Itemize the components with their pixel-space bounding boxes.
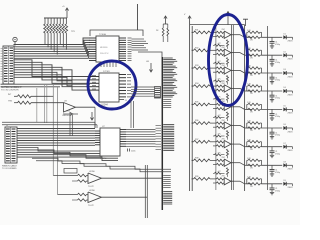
- svg-text:R39: R39: [195, 176, 198, 178]
- svg-text:D9: D9: [284, 180, 286, 182]
- resistor R35 row 5: [192, 102, 217, 106]
- capacitor C28 row 8: [270, 165, 280, 174]
- op-amp U6: [78, 190, 148, 207]
- svg-text:D5: D5: [284, 106, 286, 108]
- ground row 3: [270, 82, 274, 84]
- bus D wires: [17, 129, 95, 146]
- U4 right pins: [119, 75, 131, 103]
- resistor R39 row 9: [192, 176, 217, 180]
- svg-text:D8: D8: [284, 162, 286, 164]
- diode D8 row 8: [283, 162, 293, 171]
- power arrow right-section: [184, 14, 191, 21]
- svg-text:R32: R32: [195, 47, 198, 49]
- rail junction: [267, 26, 269, 190]
- resistors R5 R6 pullup: [156, 16, 169, 42]
- resistors input row 1: [213, 31, 224, 37]
- wires long pair: [2, 122, 97, 128]
- label J1 caption: [1, 86, 22, 92]
- diode D7 row 7: [283, 143, 293, 152]
- ground row 5: [270, 118, 274, 120]
- svg-text:2SB-R: 2SB-R: [288, 76, 294, 78]
- diode D4 row 4: [283, 87, 293, 96]
- capacitor C9: [128, 149, 136, 153]
- resistors R43 R53 row 3: [247, 66, 282, 78]
- transistor Q7 row 7: [222, 139, 252, 148]
- diode D3 row 3: [283, 69, 293, 78]
- transistor Q1 row 1: [222, 29, 252, 38]
- resistors input row 6: [213, 122, 224, 128]
- transistor Q8 row 8: [222, 157, 252, 166]
- resistor R31 row 1: [192, 29, 217, 33]
- svg-text:TRG: TRG: [8, 101, 13, 103]
- svg-text:2SB-R: 2SB-R: [288, 113, 294, 115]
- svg-text:MK3880: MK3880: [100, 47, 108, 49]
- svg-text:2SB-R: 2SB-R: [288, 41, 294, 43]
- wires op-amp feeds: [53, 176, 77, 201]
- capacitor C22 row 2: [270, 55, 280, 64]
- highlight circle (blue): [88, 61, 136, 109]
- wires vertical gray: [37, 85, 58, 195]
- transistor Q3 row 3: [222, 65, 252, 74]
- svg-text:R34: R34: [195, 83, 198, 85]
- capacitor C26 row 6: [270, 128, 280, 137]
- resistor bias row 1: [213, 40, 229, 49]
- svg-text:2SB-R: 2SB-R: [288, 150, 294, 152]
- resistors input row 8: [213, 159, 224, 165]
- svg-text:TO I/O EXPAND: TO I/O EXPAND: [2, 167, 17, 170]
- wires vertical pair bottom: [145, 165, 147, 218]
- wire bundle B3: [156, 125, 175, 151]
- label TP3: [71, 31, 76, 33]
- wire U2 top box: [90, 4, 143, 36]
- svg-text:1W: 1W: [250, 40, 253, 42]
- op-amp U3: [62, 101, 95, 129]
- bus E wires: [17, 148, 118, 161]
- svg-text:Z80-CPU: Z80-CPU: [100, 53, 109, 55]
- resistor bias row 3: [213, 75, 229, 84]
- resistor R38 row 8: [192, 157, 217, 161]
- diode D5 row 5: [283, 106, 293, 115]
- ground row 8: [270, 174, 274, 176]
- svg-text:1W: 1W: [250, 168, 253, 170]
- ground row 7: [270, 155, 274, 157]
- diode CR3: [63, 111, 78, 116]
- test point TP1: [13, 37, 17, 45]
- resistor R32 row 2: [192, 47, 217, 51]
- J1 pin numbers: [1, 49, 3, 80]
- resistors input row 9: [213, 178, 224, 184]
- svg-text:TO 170 COUPLER: TO 170 COUPLER: [1, 90, 19, 92]
- svg-text:2SB-R: 2SB-R: [288, 94, 294, 96]
- wires U7 outputs: [126, 130, 156, 147]
- wires staircase: [32, 158, 171, 172]
- svg-text:2SB-R: 2SB-R: [288, 59, 294, 61]
- svg-text:CR3: CR3: [66, 111, 70, 113]
- wire top rail: [190, 24, 245, 26]
- resistors R45 R55 row 5: [247, 102, 282, 114]
- svg-text:2SB-R: 2SB-R: [288, 187, 294, 189]
- diode D1 row 1: [283, 34, 293, 43]
- resistor R37 row 7: [192, 139, 217, 143]
- svg-text:TC40H: TC40H: [99, 34, 106, 36]
- capacitor C23 row 3: [270, 73, 280, 82]
- svg-text:1W: 1W: [250, 186, 253, 188]
- capacitor C24 row 4: [270, 91, 280, 100]
- resistor R34 row 4: [192, 83, 217, 87]
- bus C wires: [1, 84, 91, 87]
- resistor R33 row 3: [192, 65, 217, 69]
- svg-text:4700p: 4700p: [275, 116, 280, 118]
- svg-text:4700p: 4700p: [275, 98, 280, 100]
- resistor bias row 5: [213, 112, 229, 121]
- svg-text:4700p: 4700p: [275, 80, 280, 82]
- resistor R8 TRG: [8, 101, 64, 105]
- wires U2 outputs: [132, 39, 163, 57]
- power arrow mid: [226, 12, 229, 25]
- op-amp U5: [78, 171, 162, 188]
- svg-text:D2: D2: [284, 51, 286, 53]
- resistors input row 2: [213, 49, 224, 55]
- svg-text:4700p: 4700p: [275, 153, 280, 155]
- svg-text:LF356: LF356: [89, 171, 96, 173]
- resistor bias row 6: [213, 130, 229, 139]
- svg-text:TL072: TL072: [88, 205, 95, 207]
- svg-text:1W: 1W: [250, 130, 253, 132]
- svg-text:TL072: TL072: [88, 186, 95, 188]
- svg-text:R33: R33: [195, 65, 198, 67]
- rail V+ left: [189, 21, 191, 191]
- svg-text:R38: R38: [195, 157, 198, 159]
- svg-text:1W: 1W: [250, 57, 253, 59]
- resistor bias row 4: [213, 93, 229, 102]
- rail bias A: [215, 27, 217, 190]
- resistor R36 row 6: [192, 120, 217, 124]
- capacitor C29 row 9: [270, 184, 280, 193]
- svg-text:D7: D7: [284, 143, 286, 145]
- svg-text:LS374: LS374: [100, 158, 107, 160]
- transistor Q2 row 2: [222, 47, 252, 56]
- power arrow down B: [90, 112, 93, 120]
- diode D9 row 9: [283, 180, 293, 189]
- svg-text:4700p: 4700p: [275, 135, 280, 137]
- ground row 2: [270, 64, 274, 66]
- capacitor C25 row 5: [270, 109, 280, 118]
- svg-text:R31: R31: [195, 29, 198, 31]
- label J2 caption: [2, 165, 17, 171]
- capacitor C27 row 7: [270, 147, 280, 156]
- IC U4: [99, 71, 119, 107]
- resistors R47 R57 row 7: [247, 139, 282, 151]
- svg-text:1W: 1W: [250, 75, 253, 77]
- svg-text:1W: 1W: [250, 93, 253, 95]
- power arrow down A: [146, 61, 153, 72]
- rail output joint: [244, 25, 246, 191]
- svg-text:R37: R37: [195, 139, 198, 141]
- svg-text:D6: D6: [284, 124, 286, 126]
- wires CR3 vertical: [70, 115, 72, 136]
- svg-text:4700p: 4700p: [275, 172, 280, 174]
- svg-text:1W: 1W: [250, 112, 253, 114]
- transistor Q9 row 9: [222, 176, 252, 185]
- U2 bottom pins: [101, 62, 116, 67]
- resistor bias row 2: [213, 58, 229, 67]
- svg-text:R36: R36: [195, 120, 198, 122]
- svg-text:RIBBON CABLE: RIBBON CABLE: [2, 165, 17, 168]
- transistor Q5 row 5: [222, 101, 252, 110]
- svg-text:LF356: LF356: [89, 190, 96, 192]
- highlight ellipse (blue): [209, 15, 248, 106]
- wires RP1 to bus: [45, 38, 66, 55]
- IC U7: [95, 126, 126, 160]
- wire bundle B5: [163, 192, 172, 205]
- resistors input row 5: [213, 103, 224, 109]
- svg-text:LS244: LS244: [101, 105, 108, 107]
- connector J2: [5, 125, 17, 163]
- diode D6 row 6: [283, 124, 293, 133]
- resistors R41 R51 row 1: [247, 30, 282, 42]
- transistor Q4 row 4: [222, 83, 252, 92]
- IC U2: [89, 34, 132, 62]
- resistors R44 R54 row 4: [247, 84, 282, 96]
- wire bundle B4: [163, 176, 171, 188]
- bus B wires: [14, 60, 91, 90]
- power +5V arrow: [62, 6, 69, 18]
- resistors R48 R58 row 8: [247, 158, 282, 170]
- capacitor C21 row 1: [270, 37, 280, 46]
- resistors input row 3: [213, 67, 224, 73]
- resistor R7 INT: [8, 94, 53, 98]
- wire bundle B2: [163, 100, 171, 108]
- ground row 9: [270, 192, 274, 194]
- svg-text:D1: D1: [284, 34, 286, 36]
- transistor Q6 row 6: [222, 120, 252, 129]
- bus A wires: [14, 38, 90, 58]
- power stub top-right: [243, 19, 248, 26]
- wire bundle B1: [163, 58, 177, 97]
- U4 left pins: [90, 75, 99, 90]
- resistors R49 R59 row 9: [247, 176, 282, 188]
- resistors R46 R56 row 6: [247, 121, 282, 133]
- wires U4 to U7: [131, 99, 134, 129]
- resistor bias row 7: [213, 149, 229, 158]
- wires U4 to RN2: [131, 87, 154, 96]
- resistor bias row 8: [213, 168, 229, 177]
- relay K1: [64, 169, 77, 174]
- resistor network RN2: [155, 87, 161, 99]
- ground row 1: [270, 46, 274, 48]
- resistors R42 R52 row 2: [247, 48, 282, 60]
- svg-text:R35: R35: [195, 102, 198, 104]
- svg-text:LM: LM: [146, 61, 149, 63]
- bus trunk vertical: [161, 57, 163, 210]
- resistor network RP1: [44, 18, 68, 38]
- svg-text:1W: 1W: [250, 149, 253, 151]
- svg-text:4700p: 4700p: [275, 44, 280, 46]
- svg-text:2SB-R: 2SB-R: [288, 131, 294, 133]
- ground row 4: [270, 100, 274, 102]
- rail input left: [191, 26, 193, 191]
- svg-text:17C49: 17C49: [103, 71, 110, 73]
- ground row 6: [270, 137, 274, 139]
- svg-text:4700p: 4700p: [275, 62, 280, 64]
- svg-text:D3: D3: [284, 69, 286, 71]
- svg-text:100n: 100n: [131, 151, 135, 153]
- rail collector B: [232, 25, 234, 190]
- resistors input row 7: [213, 141, 224, 147]
- diode D2 row 2: [283, 51, 293, 60]
- svg-text:D4: D4: [284, 87, 286, 89]
- rail collector A: [231, 25, 233, 190]
- svg-text:4700p: 4700p: [275, 190, 280, 192]
- resistors input row 4: [213, 85, 224, 91]
- connector J1: [3, 46, 14, 84]
- svg-text:2SB-R: 2SB-R: [288, 169, 294, 171]
